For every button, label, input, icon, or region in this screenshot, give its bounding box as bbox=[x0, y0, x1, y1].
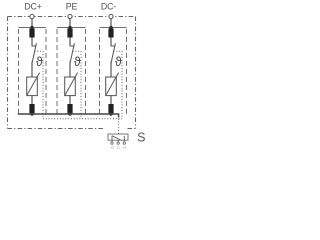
wire bbox=[110, 96, 112, 104]
linkage (dotted) module 2 bbox=[73, 51, 81, 119]
wire bbox=[31, 96, 33, 104]
bus wire (common) bbox=[18, 114, 119, 118]
wire bbox=[31, 62, 33, 78]
disconnector contact (black rect bottom) bbox=[67, 104, 72, 113]
terminal circle DC+ bbox=[30, 14, 34, 18]
wire terminal to junction bbox=[31, 19, 33, 28]
terminal circle DC- bbox=[109, 14, 113, 18]
svg-text:ϑ: ϑ bbox=[74, 55, 81, 69]
junction node on bus bbox=[109, 112, 113, 116]
wire terminal to junction bbox=[110, 19, 112, 28]
module box 1 (dashed) bbox=[19, 28, 47, 114]
wire bbox=[69, 96, 71, 104]
module box 3 (dashed) bbox=[100, 28, 127, 114]
wire bbox=[69, 62, 71, 78]
svg-text:DC-: DC- bbox=[101, 2, 116, 12]
terminal circle PE bbox=[68, 14, 72, 18]
wire bbox=[31, 38, 33, 47]
wire bbox=[110, 62, 112, 78]
svg-text:12: 12 bbox=[110, 145, 114, 149]
svg-text:ϑ: ϑ bbox=[36, 55, 43, 69]
contact terminal numbers bbox=[110, 145, 126, 149]
junction node on bus bbox=[30, 112, 34, 116]
remote signalling contact box bbox=[108, 134, 128, 140]
thermal disconnect switch bbox=[111, 43, 116, 62]
wire bbox=[110, 38, 112, 47]
disconnector contact (black rect top) bbox=[108, 28, 113, 37]
junction node on bus bbox=[68, 112, 72, 116]
varistor bbox=[65, 73, 78, 96]
disconnector contact (black rect bottom) bbox=[29, 104, 34, 113]
changeover contact inside box bbox=[112, 136, 124, 142]
wire bbox=[69, 38, 71, 47]
module box 2 (dashed) bbox=[57, 28, 86, 114]
device border (dash-dot enclosure) bbox=[8, 17, 136, 129]
junction node bbox=[109, 26, 113, 30]
svg-text:ϑ: ϑ bbox=[115, 55, 122, 69]
linkage (dotted) module 3 bbox=[114, 51, 122, 119]
junction node bbox=[30, 26, 34, 30]
linkage (dotted) bottom run bbox=[43, 119, 122, 134]
disconnector contact (black rect bottom) bbox=[108, 104, 113, 113]
svg-text:11: 11 bbox=[117, 145, 120, 149]
disconnector contact (black rect top) bbox=[29, 28, 34, 37]
junction node bbox=[68, 26, 72, 30]
svg-text:DC+: DC+ bbox=[24, 2, 41, 12]
varistor bbox=[106, 73, 119, 96]
disconnector contact (black rect top) bbox=[67, 28, 72, 37]
thermal disconnect switch bbox=[32, 43, 37, 62]
svg-text:S: S bbox=[137, 131, 145, 145]
thermal disconnect switch bbox=[70, 43, 75, 62]
svg-text:14: 14 bbox=[123, 145, 127, 149]
contact terminal circles bbox=[111, 142, 126, 144]
wire terminal to junction bbox=[69, 19, 71, 28]
svg-text:PE: PE bbox=[66, 2, 78, 12]
linkage (dotted) module 1 bbox=[35, 51, 43, 119]
varistor bbox=[27, 73, 40, 96]
